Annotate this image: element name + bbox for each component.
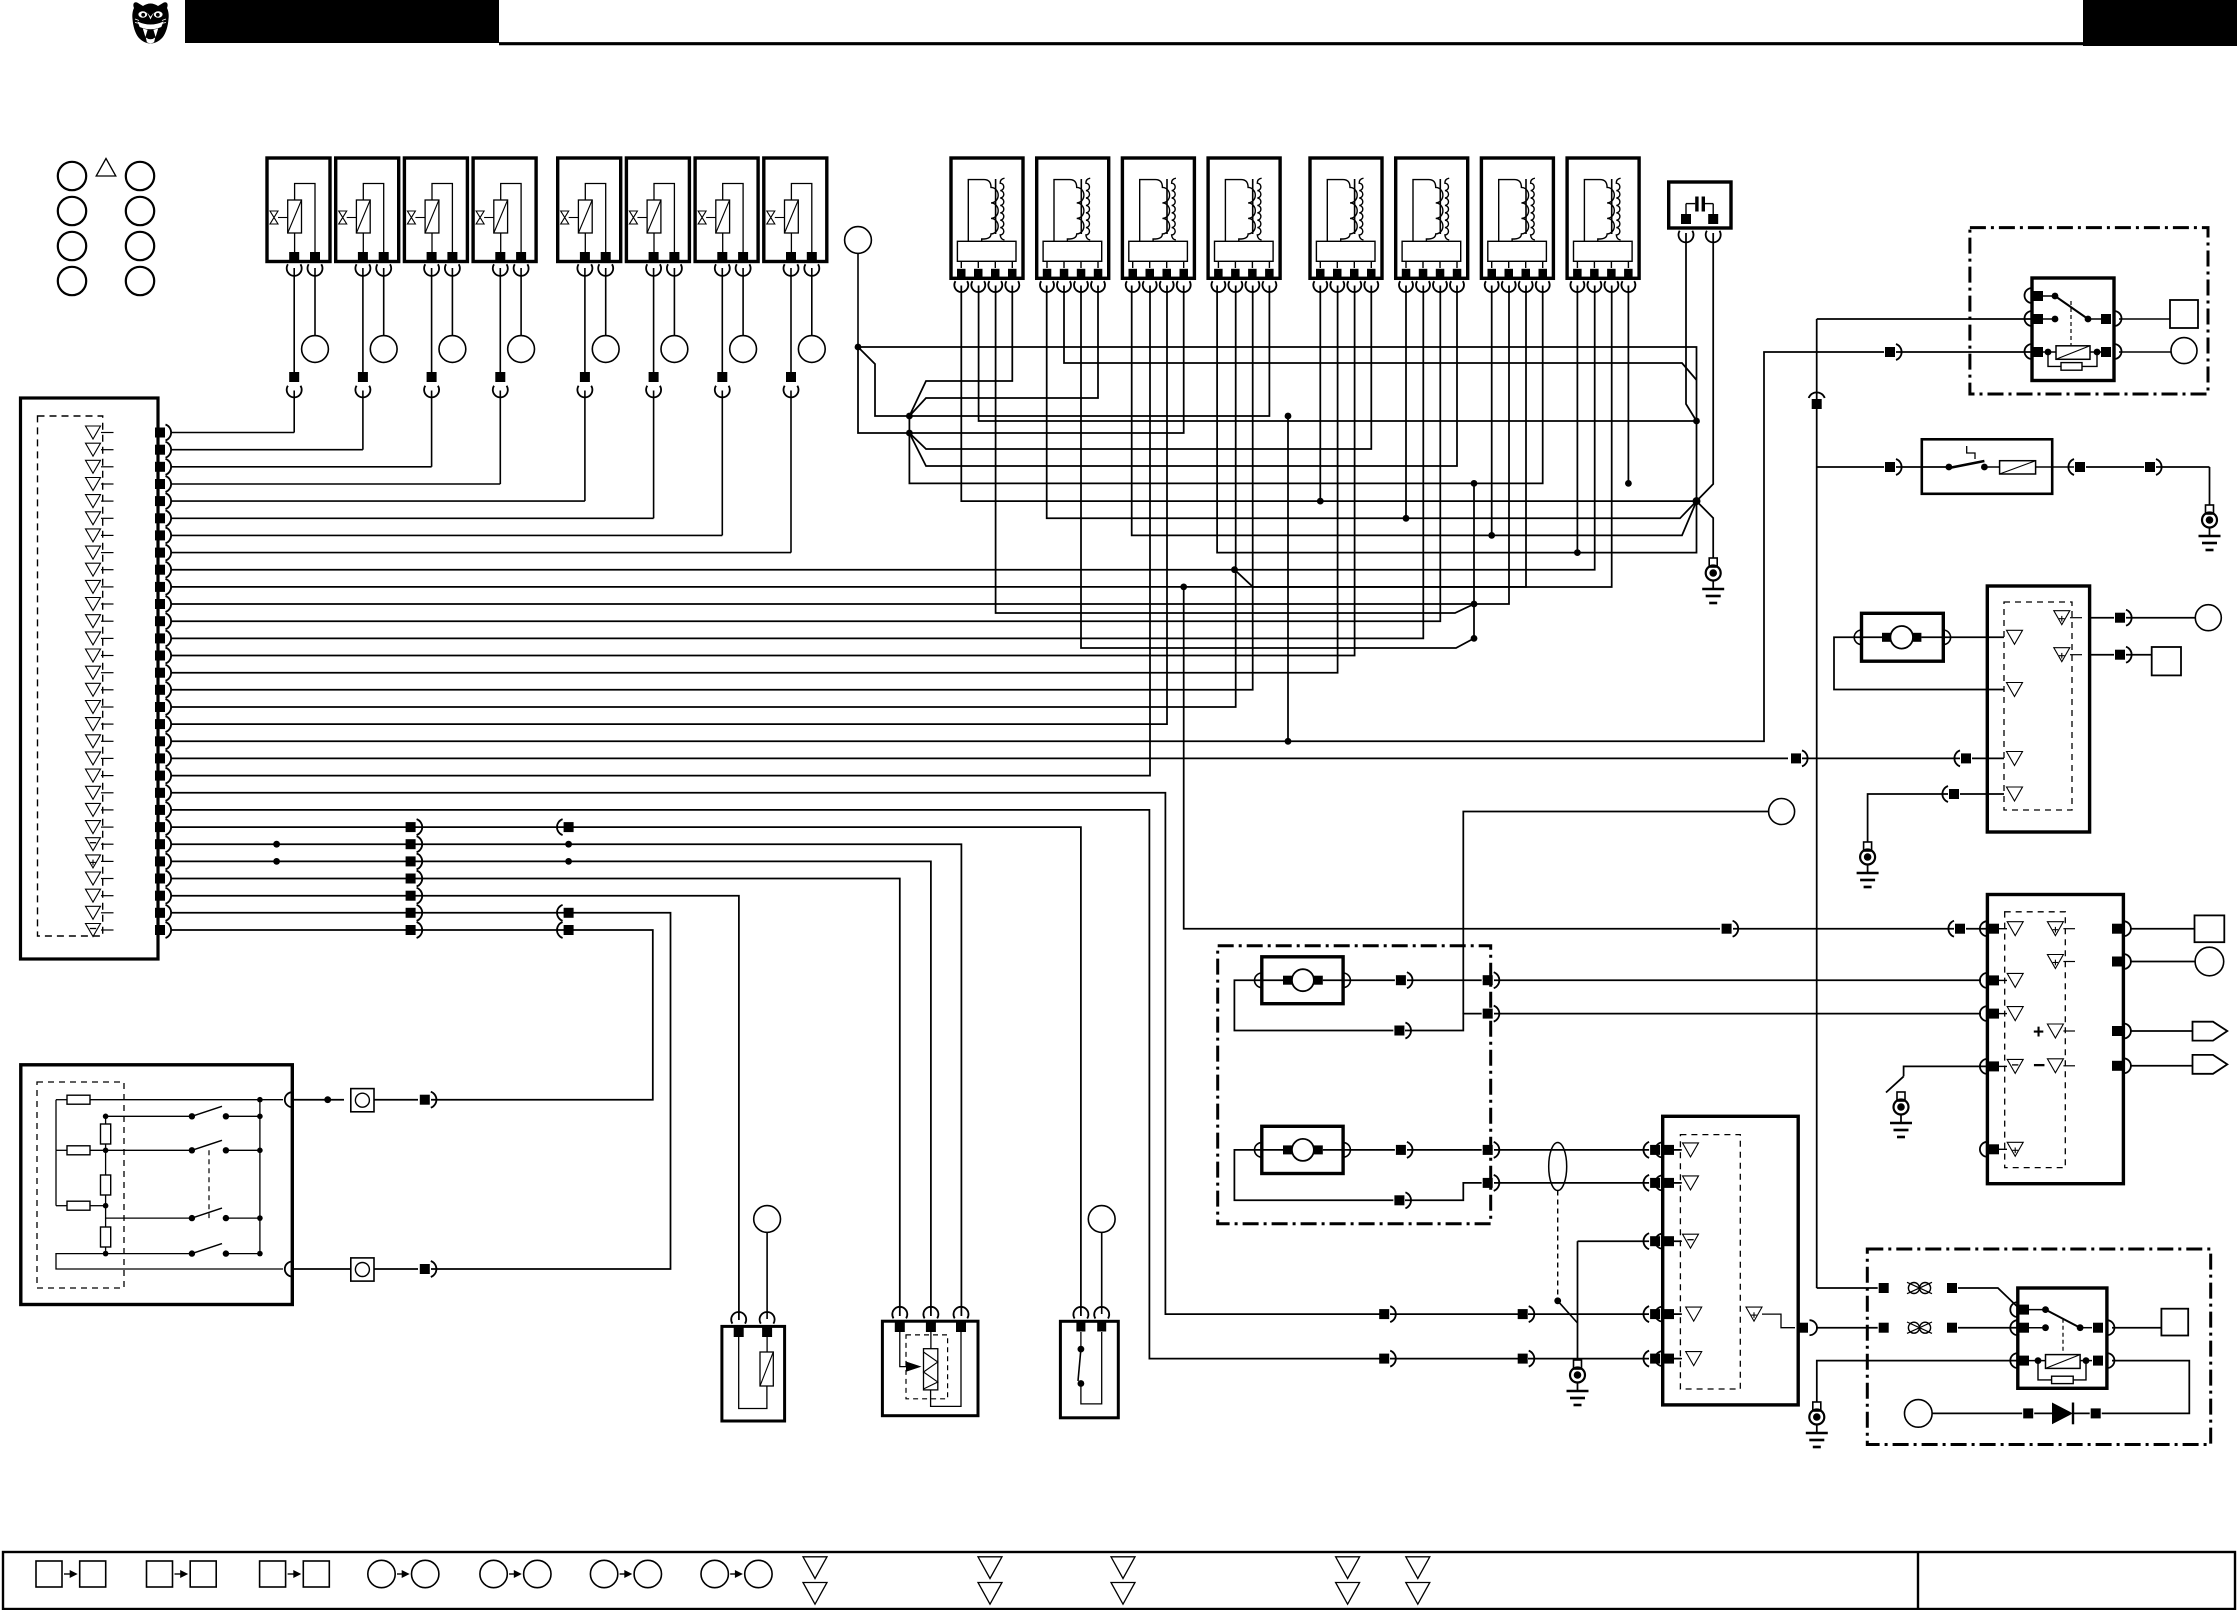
capacitor symbol bbox=[1695, 197, 1698, 212]
svg-text:−: − bbox=[2033, 1054, 2045, 1077]
ECU edge pins bbox=[155, 428, 165, 438]
injector INJ4 pin 2 wire to splice circle bbox=[520, 268, 522, 336]
wire supply riser to relay R1 pin86 bbox=[1817, 318, 2032, 320]
bulkhead connector TPS2 bbox=[351, 1258, 374, 1281]
wire ECU row11 to coil T7 pin2 bbox=[172, 286, 1510, 605]
ignition coil T5 primary winding bbox=[1327, 180, 1357, 242]
wire blower relay coil to ground bbox=[1817, 1361, 2018, 1402]
shield oval bbox=[1549, 1143, 1567, 1191]
blower relay arm bbox=[2046, 1310, 2081, 1328]
throttle motor MA box bbox=[1262, 957, 1343, 1004]
TPS vertical resistor Rv3 bbox=[101, 1227, 111, 1247]
wire rail381 fan bbox=[909, 286, 1012, 417]
TPS wire1 left drop bbox=[55, 1100, 57, 1151]
ignition coil T7 primary winding bbox=[1499, 180, 1529, 242]
blower relay pins left bbox=[2010, 1302, 2018, 1317]
wire motor MA pin1 bbox=[1323, 979, 1395, 981]
throttle module triangles left bbox=[2007, 922, 2023, 936]
injector INJ5 solenoid bbox=[578, 200, 592, 233]
purge solenoid box bbox=[722, 1326, 785, 1421]
blower relay parallel resistor bbox=[2052, 1376, 2074, 1383]
inline connector relay R2 feed bbox=[1885, 462, 1895, 472]
inline connectors left type rows 24 29 30 bbox=[564, 822, 574, 832]
idle motor M1 box bbox=[1862, 613, 1944, 661]
throttle motor MA bbox=[1292, 969, 1314, 991]
wire motor MB pin2 bbox=[1234, 1150, 1393, 1200]
ground G1 below node X bbox=[1709, 558, 1717, 567]
ignition coil T6 core bbox=[1439, 179, 1441, 234]
node T8 pin1 junction bbox=[1574, 549, 1581, 556]
relay R1 parallel resistor bbox=[2061, 363, 2082, 371]
relay R1 mechanical link bbox=[2070, 301, 2072, 345]
relay R1 pin 87 out bbox=[2088, 318, 2102, 320]
TPS wire2 bbox=[56, 1149, 67, 1151]
wire supply to blower relay bbox=[1817, 1287, 1878, 1289]
TPS wire1 bbox=[56, 1099, 67, 1101]
wire ECU row12 to coil T6 pin3 bbox=[172, 286, 1441, 622]
node row13 branch bbox=[1471, 635, 1478, 642]
ignition coil T4 box bbox=[1208, 158, 1280, 278]
ignition coil T8 core bbox=[1611, 179, 1613, 234]
injector INJ1 valve symbol bbox=[270, 211, 278, 224]
wire coil T8 pin1 drop bbox=[1576, 286, 1578, 553]
injector INJ1 pin 2 wire to splice circle bbox=[314, 268, 316, 336]
splice circle group left column bbox=[58, 162, 86, 190]
throttle module right pins bbox=[2112, 924, 2122, 934]
wire ECU row15 to coil T5 pin2 bbox=[172, 286, 1338, 673]
wire J1 diagonal to rail416 bbox=[858, 347, 909, 416]
idle module pin triangles right bbox=[2054, 611, 2070, 625]
ignition coil T3 secondary winding bbox=[1172, 178, 1176, 240]
injector INJ4 inline connector bbox=[495, 372, 505, 382]
wire ECU row22 to AC module pin bbox=[172, 793, 1381, 1314]
svg-text:+: + bbox=[2033, 1022, 2044, 1043]
ground G4 throttle bbox=[1897, 1092, 1905, 1101]
purge solenoid pins bbox=[731, 1312, 746, 1324]
TPS resistor R1 bbox=[67, 1095, 90, 1104]
inertia switch contacts bbox=[1946, 464, 1953, 471]
blower relay box bbox=[2018, 1288, 2107, 1388]
throttle module left pins bbox=[1980, 921, 1987, 936]
wire coil T2 pin1 to ground rail y518 bbox=[1047, 286, 1697, 519]
injector INJ8 valve symbol bbox=[767, 211, 775, 224]
inline connector on supply riser bbox=[1812, 399, 1822, 409]
splice circle S1 bbox=[845, 227, 872, 254]
splice dots rows 25 26 bbox=[273, 841, 280, 848]
fuse square terminal bbox=[2170, 300, 2198, 328]
injector INJ4 valve symbol bbox=[476, 211, 484, 224]
wire throttle right 2 to circle bbox=[2130, 961, 2195, 963]
ignition coil T2 secondary winding bbox=[1086, 178, 1090, 240]
supply riser vertical bbox=[1816, 319, 1818, 1288]
injector INJ5 pins bbox=[580, 252, 590, 262]
TPS vertical resistor Rv1 bbox=[101, 1124, 111, 1144]
idle module dashed outline bbox=[2004, 602, 2072, 810]
injector INJ3 pin 2 wire to splice circle bbox=[451, 268, 453, 336]
wire idle motor M1 to module bbox=[1921, 636, 2004, 638]
triangle marker bbox=[96, 159, 116, 177]
ignition coil T8 connector strip bbox=[1574, 241, 1633, 261]
node J1 splice bundle bbox=[855, 344, 862, 351]
injector INJ2 pin 1 wire bbox=[362, 268, 364, 372]
TPS output wire2 outside bbox=[292, 1268, 351, 1270]
ground G2 inertia switch bbox=[2206, 505, 2214, 514]
legend connector squares bbox=[36, 1561, 62, 1587]
wire ECU row9 to coil T8 pin2 bbox=[172, 286, 1595, 570]
wire ECU row19 relay feed bbox=[172, 352, 1885, 741]
injector INJ4 pin 1 wire bbox=[499, 268, 501, 372]
injector INJ4 internal wiring bbox=[501, 184, 521, 254]
AC control module box bbox=[1663, 1116, 1799, 1405]
bowtie connector wire1 bbox=[1908, 1283, 1919, 1294]
wire node X to ground bbox=[1697, 501, 1714, 558]
ignition coil T2 core bbox=[1080, 179, 1082, 234]
wire rail421 coil T1 pin2 to node A bbox=[979, 286, 1697, 422]
ignition coil T1 core bbox=[995, 179, 997, 234]
wire ECU row18 to coil T3 pin3 bbox=[172, 286, 1168, 725]
TPS output wire1 outside bbox=[292, 1099, 344, 1101]
TPS resistor R2 bbox=[67, 1146, 90, 1155]
injector INJ2 box bbox=[336, 158, 399, 262]
wire diode to clutch circle bbox=[1932, 1412, 2022, 1414]
heater arrow bbox=[900, 1332, 906, 1367]
ground G5 shield bbox=[1574, 1360, 1582, 1369]
injector INJ1 box bbox=[267, 158, 330, 262]
inline connector on relay coil feed bbox=[1885, 347, 1895, 357]
wire ECU row10 to coil T7 pin3 bbox=[172, 286, 1527, 587]
injector INJ4 box bbox=[473, 158, 536, 262]
AC module triangles bbox=[1683, 1143, 1699, 1157]
legend divider bbox=[1917, 1552, 1919, 1609]
wire row11-row13 riser bbox=[1473, 604, 1475, 638]
injector INJ6 pins bbox=[649, 252, 659, 262]
inline connector row23 c bbox=[1650, 1354, 1660, 1364]
injector INJ4 pins bbox=[495, 252, 505, 262]
wire idle module pin4 to ground bbox=[1960, 793, 2004, 795]
ignition coil T6 primary winding bbox=[1413, 180, 1443, 242]
injector INJ6 valve symbol bbox=[629, 211, 637, 224]
relay R1 switch arm bbox=[2055, 296, 2088, 319]
inertia switch arm bbox=[1949, 461, 1985, 468]
wire coil T6 pin1 drop bbox=[1405, 286, 1407, 519]
injector INJ6 box bbox=[626, 158, 689, 262]
injector INJ5 internal wiring bbox=[585, 184, 605, 254]
wire ECU row21 to coil T3 pin2 bbox=[172, 286, 1151, 776]
node row11 branch bbox=[1471, 601, 1478, 608]
wire mesh riser to throttle module bbox=[1184, 587, 1720, 929]
ignition coil T3 core bbox=[1166, 179, 1168, 234]
relay R1 switch common dot bbox=[2052, 293, 2059, 300]
ignition coil T3 box bbox=[1122, 158, 1194, 278]
TPS wire2 left drop bbox=[55, 1150, 57, 1205]
ignition coil T3 pins bbox=[1132, 261, 1134, 268]
injector INJ7 box bbox=[695, 158, 758, 262]
legend triangle pairs bbox=[803, 1557, 827, 1579]
heater internal wires bbox=[930, 1332, 932, 1349]
wire ECU row29 to TPS wire2 bbox=[172, 913, 671, 1269]
wire ECU row20 to EGR module bbox=[172, 757, 1789, 759]
injector INJ1 pin 1 wire bbox=[293, 268, 295, 372]
injector INJ8 solenoid bbox=[785, 200, 799, 233]
injector INJ8 box bbox=[764, 158, 827, 262]
ECU connector box C0606 bbox=[21, 398, 159, 959]
injector INJ2 solenoid bbox=[356, 200, 370, 233]
wire throttle pin4 switch to ground bbox=[1904, 1066, 1988, 1076]
injector INJ2 inline connector bbox=[358, 372, 368, 382]
inline connector throttle feed a bbox=[1722, 924, 1732, 934]
inertia switch reset lever bbox=[1967, 446, 1975, 459]
wire capacitor pin1 to node A bbox=[1686, 233, 1697, 421]
injector INJ3 valve symbol bbox=[407, 211, 415, 224]
ignition coil T5 pins bbox=[1319, 261, 1321, 268]
relay R1 coil pins bbox=[2025, 344, 2032, 359]
wire AC module to blower relay bbox=[1816, 1327, 1878, 1329]
wire splice idle return bbox=[1463, 812, 1768, 1014]
ignition coil T6 pins bbox=[1405, 261, 1407, 268]
throttle module box bbox=[1987, 895, 2123, 1184]
wire motor MB pin1 bbox=[1323, 1149, 1395, 1151]
node J2 bbox=[906, 413, 913, 420]
wire blower relay to square bbox=[2112, 1327, 2161, 1329]
wire splice S1 to node bbox=[857, 253, 859, 347]
ECU pin triangles bbox=[86, 426, 101, 439]
injector INJ8 pin 2 wire to splice circle bbox=[811, 268, 813, 336]
wire ECU row27 to heater box pin1 bbox=[172, 879, 900, 1317]
ignition coil T5 box bbox=[1310, 158, 1382, 278]
ignition coil T1 box bbox=[951, 158, 1023, 278]
wire coil T7 pin1 drop bbox=[1491, 286, 1493, 536]
wire J2-J3-rail483 vertical bbox=[909, 416, 926, 483]
injector INJ5 valve symbol bbox=[561, 211, 569, 224]
purge solenoid coil bbox=[760, 1352, 773, 1386]
inertia switch box bbox=[1922, 439, 2052, 494]
injector INJ5 pin 1 wire bbox=[584, 268, 586, 372]
heater pins bbox=[892, 1307, 907, 1319]
ignition coil T4 core bbox=[1252, 179, 1254, 234]
wire row9 branch to coil T8 pin3 bbox=[1235, 286, 1612, 588]
shield drain to ground wire bbox=[1558, 1301, 1578, 1323]
ignition coil T7 secondary winding bbox=[1531, 178, 1535, 240]
TPS mechanical link dashed bbox=[208, 1150, 210, 1218]
injector INJ8 pins bbox=[786, 252, 796, 262]
inline connector row22 b bbox=[1518, 1309, 1528, 1319]
wire ECU row14 to coil T5 pin3 bbox=[172, 286, 1355, 656]
ignition coil T7 core bbox=[1525, 179, 1527, 234]
injector INJ3 pins bbox=[427, 252, 437, 262]
wire row19 tap riser to rail416 bbox=[1287, 416, 1289, 741]
wire blower coil return to diode bbox=[2102, 1361, 2190, 1414]
wire rail483 to coil T7 pin4 bbox=[926, 286, 1543, 484]
ignition coil T1 primary winding bbox=[968, 180, 998, 242]
ignition coil T4 connector strip bbox=[1215, 241, 1274, 261]
injector INJ2 internal wiring bbox=[363, 184, 383, 254]
compressor clutch circle bbox=[1905, 1400, 1933, 1428]
injector INJ8 internal wiring bbox=[791, 184, 811, 254]
injector INJ3 inline connector bbox=[427, 372, 437, 382]
AC module dashed outline bbox=[1680, 1135, 1740, 1389]
EGR heater box bbox=[882, 1321, 978, 1416]
wire coil T8 pin4 drop bbox=[1627, 286, 1629, 484]
ECU rows 1-8 wires to injectors bbox=[172, 432, 295, 434]
wire ECU row25 to heater box pin3 bbox=[172, 844, 962, 1316]
wire coil T3 pin1 to ground rail y535 bbox=[1132, 286, 1697, 536]
injector INJ8 pin 1 wire bbox=[790, 268, 792, 372]
injector INJ7 pins bbox=[717, 252, 727, 262]
park switch internal wire bbox=[1081, 1332, 1102, 1404]
wire ECU row23 to AC module pin bbox=[172, 810, 1381, 1359]
ignition coil T7 connector strip bbox=[1488, 241, 1547, 261]
inline connector row23 b bbox=[1518, 1354, 1528, 1364]
wire coil T5 pin1 drop bbox=[1319, 286, 1321, 502]
inline connector row22 c bbox=[1650, 1309, 1660, 1319]
throttle motor MB bbox=[1292, 1139, 1314, 1161]
TPS row1 line bbox=[106, 1115, 192, 1117]
splice circle idle return bbox=[1769, 799, 1795, 825]
injector INJ7 pin 1 wire bbox=[721, 268, 723, 372]
idle module pin triangles left bbox=[2007, 630, 2023, 644]
header title bar bbox=[185, 0, 499, 43]
injector INJ5 pin 2 wire to splice circle bbox=[605, 268, 607, 336]
bowtie connector wire2 bbox=[1908, 1322, 1919, 1333]
ignition coil T6 secondary winding bbox=[1445, 178, 1449, 240]
relay R1 coil bbox=[2056, 346, 2090, 360]
injector INJ4 solenoid bbox=[494, 200, 508, 233]
TPS switch contacts and arms bbox=[189, 1113, 195, 1119]
heater element bbox=[924, 1349, 938, 1390]
throttle motor MB box bbox=[1262, 1126, 1343, 1173]
injector INJ7 valve symbol bbox=[698, 211, 706, 224]
inline connectors on ECU rows 24-30 bbox=[406, 822, 416, 832]
ignition coil T4 primary winding bbox=[1225, 180, 1255, 242]
throttle module dashed outline bbox=[2005, 912, 2066, 1168]
TPS resistor R3 bbox=[67, 1201, 90, 1210]
wire coil T4 pin1 to ground rail y552 bbox=[1217, 286, 1696, 553]
ignition coil T2 primary winding bbox=[1054, 180, 1084, 242]
wire relay R2 feed bbox=[1817, 466, 1884, 468]
node X junction bbox=[1693, 497, 1701, 505]
ignition coil T4 secondary winding bbox=[1257, 178, 1261, 240]
ignition coil T4 pins bbox=[1217, 261, 1219, 268]
wire rail466 fan bbox=[909, 286, 1457, 467]
ignition coil T8 box bbox=[1567, 158, 1639, 278]
node riser junction on rail483 bbox=[1471, 480, 1478, 487]
node T5 pin1 junction bbox=[1317, 498, 1324, 505]
ignition coil T3 connector strip bbox=[1129, 241, 1188, 261]
TPS row3 line bbox=[106, 1206, 192, 1218]
ignition coil T8 pins bbox=[1576, 261, 1578, 268]
inline connector inertia out b bbox=[2145, 462, 2155, 472]
wire row13 branch rail to coil T2 pin3 bbox=[1081, 286, 1474, 649]
AC module internal link to right pin bbox=[1762, 1314, 1795, 1328]
TPS vertical resistor Rv2 bbox=[101, 1175, 111, 1195]
wire capacitor pin2 to node X bbox=[1697, 233, 1714, 501]
ignition coil T8 primary winding bbox=[1584, 180, 1614, 242]
park switch contacts bbox=[1080, 1332, 1082, 1349]
injector INJ5 box bbox=[558, 158, 621, 262]
heater dashed outline bbox=[906, 1335, 948, 1399]
inertia switch series element bbox=[2000, 461, 2036, 474]
ignition coil T6 box bbox=[1396, 158, 1468, 278]
ignition coil T2 connector strip bbox=[1043, 241, 1102, 261]
injector INJ2 pins bbox=[358, 252, 368, 262]
injector INJ6 solenoid bbox=[647, 200, 661, 233]
idle module right pin 2 wire bbox=[2090, 654, 2114, 656]
TPS assembly box bbox=[21, 1065, 293, 1305]
connector square idle 2 bbox=[2152, 647, 2181, 675]
injector INJ1 internal wiring bbox=[295, 184, 315, 254]
node T8 pin4 junction bbox=[1625, 480, 1632, 487]
injector INJ1 inline connector bbox=[289, 372, 299, 382]
ignition coil T8 secondary winding bbox=[1616, 178, 1620, 240]
ignition coil T3 primary winding bbox=[1140, 180, 1170, 242]
injector INJ2 valve symbol bbox=[339, 211, 347, 224]
wire motor MA pin2 bbox=[1234, 980, 1393, 1030]
injector INJ7 solenoid bbox=[716, 200, 730, 233]
capacitor pins bbox=[1685, 204, 1687, 214]
TPS box edge cups bbox=[285, 1092, 292, 1107]
injector INJ3 pin 1 wire bbox=[431, 268, 433, 372]
injector INJ8 inline connector bbox=[786, 372, 796, 382]
wire throttle right 1 to square bbox=[2130, 928, 2195, 930]
injector INJ6 internal wiring bbox=[654, 184, 674, 254]
node row19 tap bbox=[1285, 738, 1292, 745]
wire idle motor M1 return bbox=[1834, 637, 2004, 689]
purge solenoid internal wires bbox=[739, 1337, 767, 1409]
fuel pump relay dash-dot enclosure bbox=[1970, 228, 2208, 394]
inline connector row22 a bbox=[1379, 1309, 1389, 1319]
wire ECU row13 to coil T6 pin2 bbox=[172, 286, 1424, 639]
AC module right pin bbox=[1798, 1323, 1808, 1333]
node T6 pin1 junction bbox=[1403, 515, 1410, 522]
ignition coil T5 connector strip bbox=[1316, 241, 1375, 261]
wire ECU row24 to switch box bbox=[172, 827, 1081, 1316]
TPS right bus bbox=[259, 1100, 261, 1254]
shield drain dashed bbox=[1557, 1191, 1559, 1301]
wire ECU row16 to coil T4 pin3 bbox=[172, 286, 1253, 690]
wire row11 branch rail to coil T1 pin3 bbox=[996, 286, 1474, 614]
ignition coil T7 box bbox=[1481, 158, 1553, 278]
relay R1 pin 86 bbox=[2025, 311, 2032, 326]
wire rail398 fan bbox=[909, 286, 1098, 417]
throttle ground switch arm bbox=[1886, 1076, 1904, 1092]
injector INJ6 pin 1 wire bbox=[653, 268, 655, 372]
fuel pump relay box bbox=[2032, 278, 2114, 381]
ECU inner dashed outline bbox=[38, 416, 103, 936]
idle motor M1 bbox=[1890, 626, 1913, 649]
injector INJ3 internal wiring bbox=[432, 184, 452, 254]
blower relay pin right bbox=[2093, 1323, 2103, 1333]
inline connector inertia out a bbox=[2075, 462, 2085, 472]
legend box bbox=[3, 1552, 2235, 1609]
Jaguar growler logo bbox=[132, 2, 168, 43]
blower relay mechanical link bbox=[2062, 1319, 2064, 1353]
inline connector row20 b bbox=[1961, 753, 1971, 763]
wire J1 down to rail433 bbox=[858, 347, 909, 433]
wire rail y347 to node A bbox=[858, 347, 1697, 421]
splice circle idle 1 bbox=[2195, 605, 2221, 631]
injector INJ7 inline connector bbox=[717, 372, 727, 382]
node rail416 tap bbox=[1285, 413, 1292, 420]
ignition coil T5 core bbox=[1354, 179, 1356, 234]
injector INJ6 pin 2 wire to splice circle bbox=[673, 268, 675, 336]
blower relay coil pins bbox=[2010, 1353, 2018, 1368]
blower relay coil bbox=[2046, 1355, 2081, 1369]
node row9 branch bbox=[1231, 566, 1238, 573]
ignition coil T6 connector strip bbox=[1402, 241, 1461, 261]
injector INJ2 pin 2 wire to splice circle bbox=[383, 268, 385, 336]
splice circle group right column bbox=[126, 162, 154, 190]
idle control module box bbox=[1987, 586, 2089, 832]
